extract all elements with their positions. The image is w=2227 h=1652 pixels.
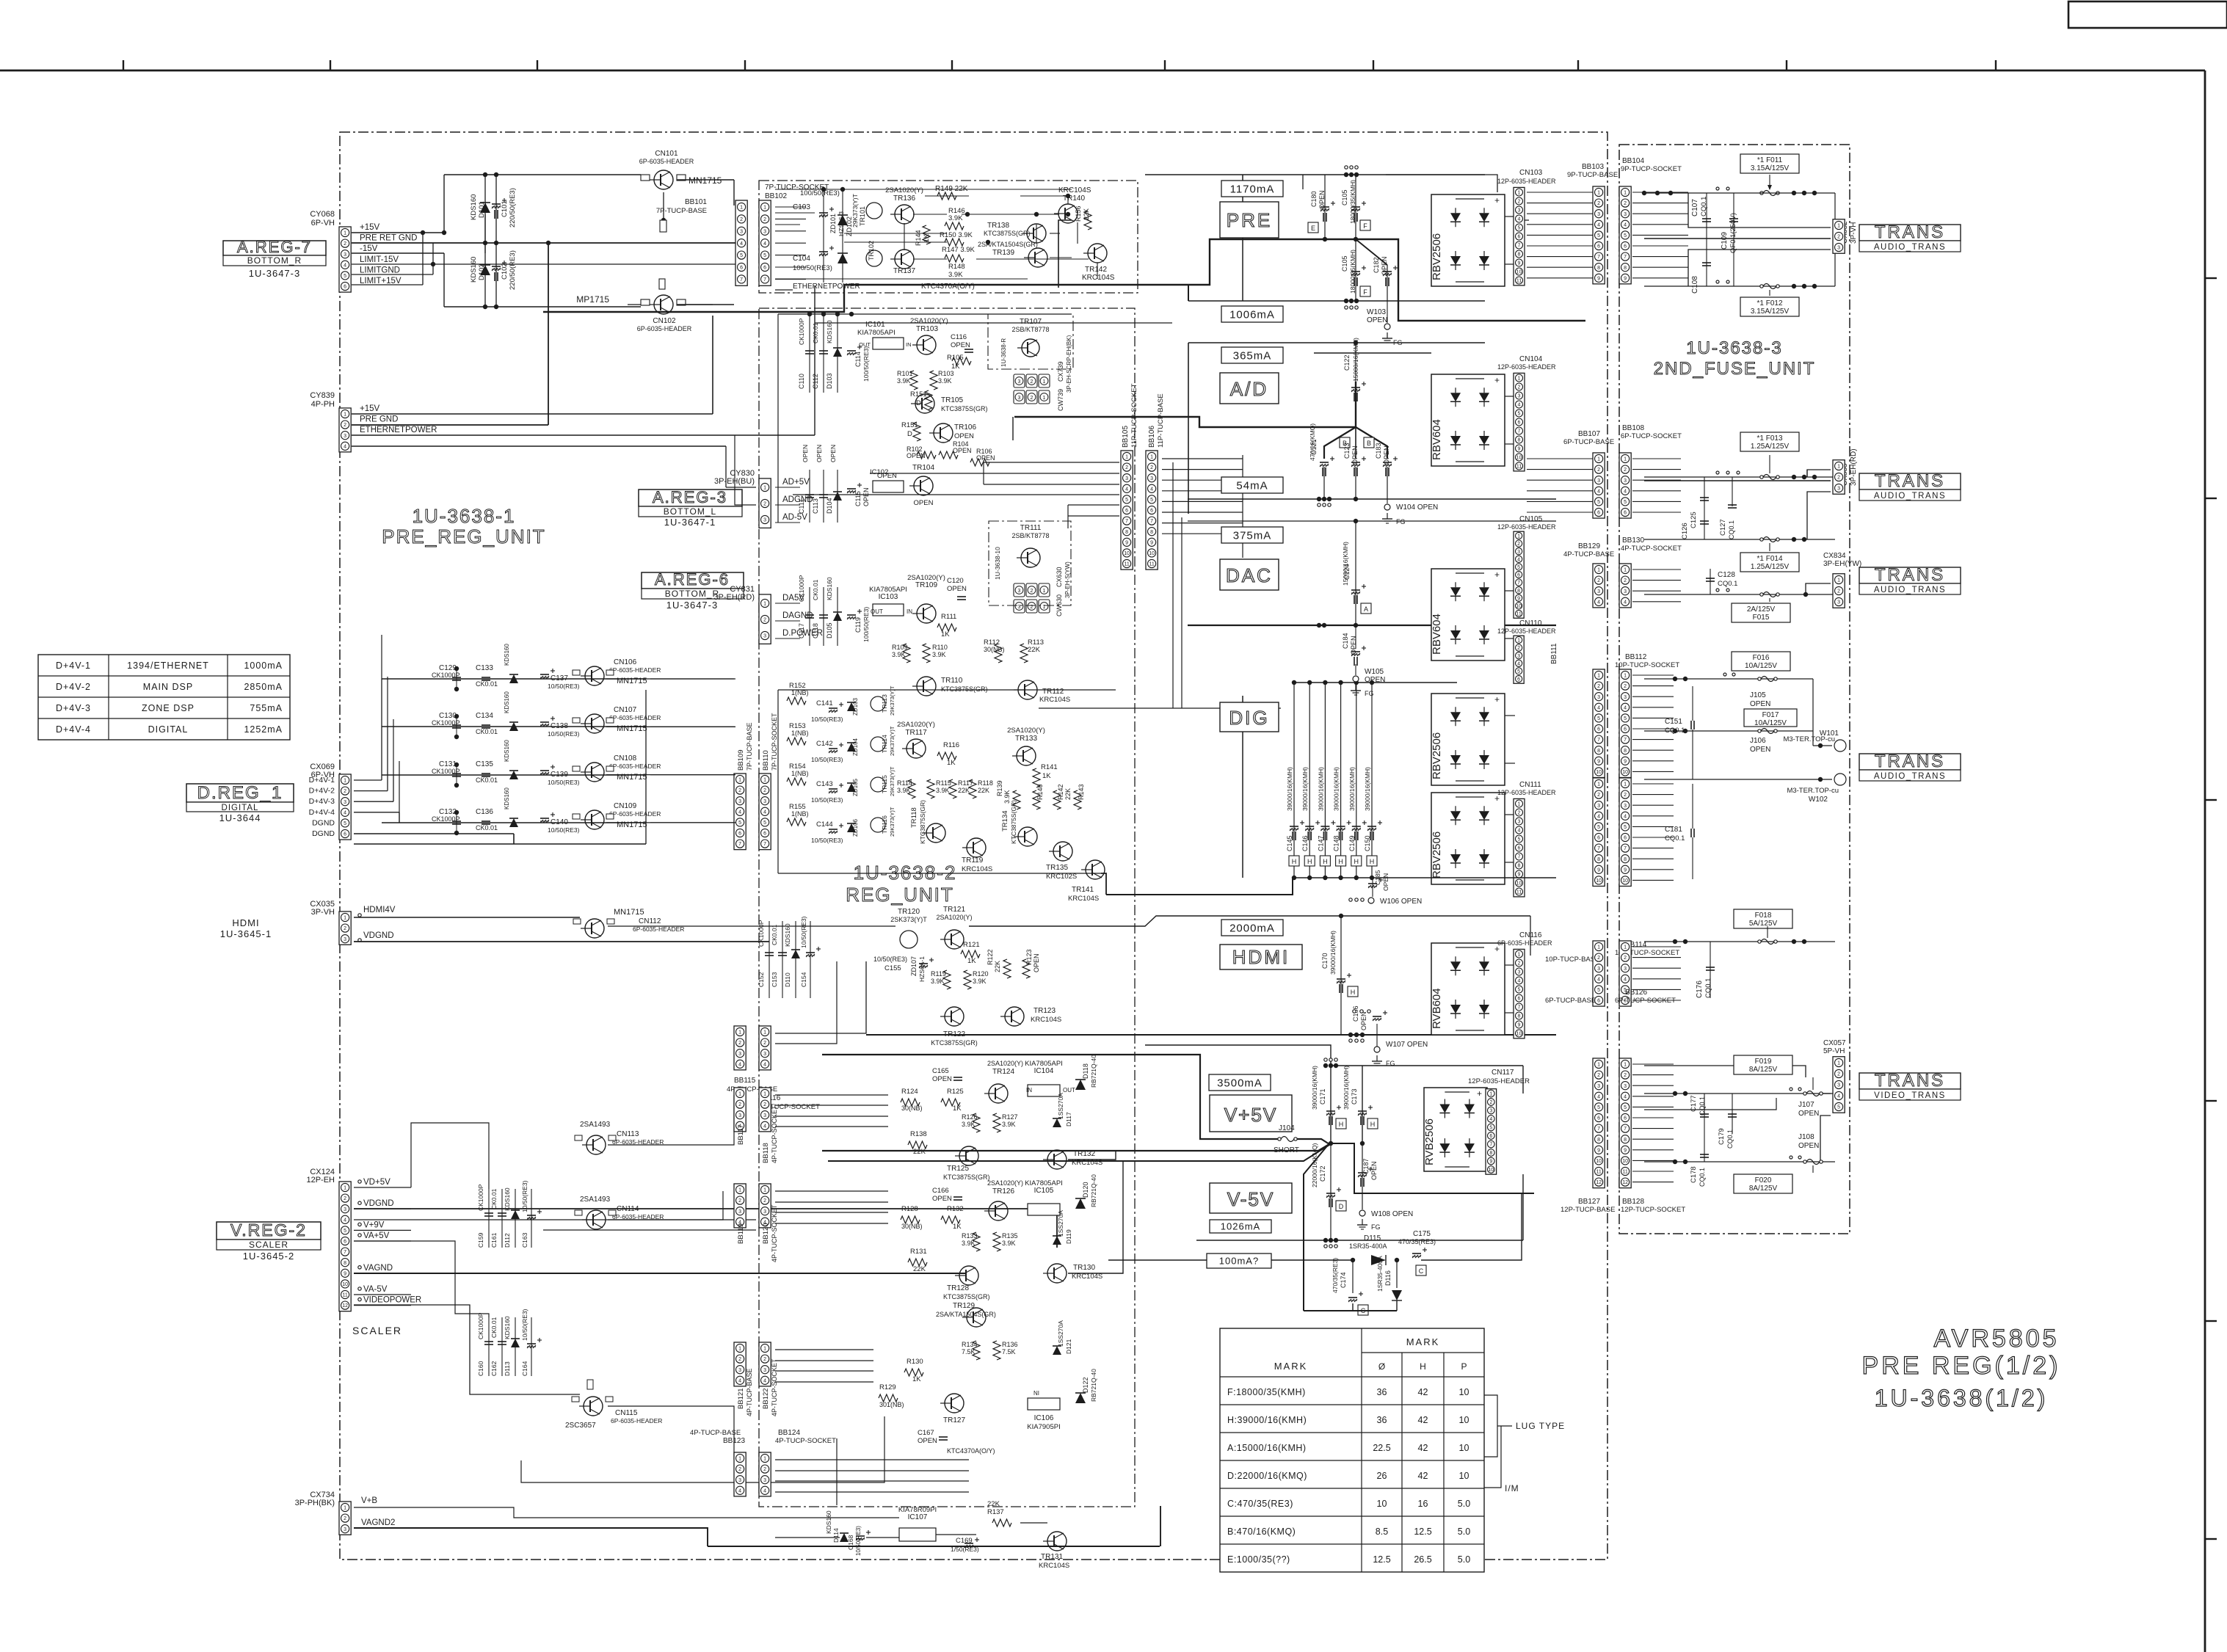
svg-text:C152: C152 [758,972,765,987]
svg-text:BB101: BB101 [685,198,707,206]
svg-text:CQ0.1: CQ0.1 [1726,1129,1734,1149]
svg-text:KRC104S: KRC104S [1068,895,1099,903]
svg-text:5: 5 [1624,233,1627,239]
svg-text:12.5: 12.5 [1373,1554,1390,1565]
svg-text:BB127: BB127 [1578,1198,1600,1206]
svg-text:D+4V-4: D+4V-4 [309,808,335,817]
svg-text:3: 3 [1517,550,1520,555]
svg-text:H: H [1292,858,1297,865]
label A/D [1220,373,1279,404]
svg-text:4: 4 [344,444,346,449]
svg-text:D+4V-3: D+4V-3 [309,797,335,806]
fuse label F014 [1740,553,1799,572]
svg-text:1U-3638(1/2): 1U-3638(1/2) [1875,1385,2049,1411]
svg-text:BB119: BB119 [737,1223,745,1244]
svg-text:VIDEOPOWER: VIDEOPOWER [363,1296,421,1305]
svg-text:7P-TUCP-SOCKET: 7P-TUCP-SOCKET [771,713,778,771]
svg-text:1: 1 [344,231,346,236]
connector pair BB123/BB124 4P [734,1452,746,1496]
svg-text:+15V: +15V [360,223,380,232]
svg-text:30(NB): 30(NB) [901,1223,923,1230]
connector pair BB107/BB108 6P [1593,453,1605,518]
W105 OPEN FG [1355,625,1356,649]
svg-text:TR117: TR117 [905,729,927,737]
svg-text:1: 1 [763,1188,766,1193]
bridge rectifier RVB2506 (V5V) [1424,1088,1487,1171]
svg-text:6P-TUCP-BASE: 6P-TUCP-BASE [1563,438,1614,446]
svg-text:C179: C179 [1718,1128,1726,1145]
svg-text:RB721Q-40: RB721Q-40 [1090,1369,1097,1402]
svg-text:1: 1 [763,1030,766,1036]
svg-text:AUDIO_TRANS: AUDIO_TRANS [1874,772,1946,781]
svg-text:R129: R129 [879,1383,896,1391]
svg-text:3: 3 [1837,600,1840,605]
svg-text:BB122: BB122 [762,1388,770,1409]
wire LIMITGND [352,274,433,275]
svg-text:7: 7 [740,277,743,283]
svg-text:MN1715: MN1715 [689,175,722,186]
svg-text:42: 42 [1418,1387,1428,1397]
svg-text:H:39000/16(KMH): H:39000/16(KMH) [1227,1415,1307,1425]
svg-text:1: 1 [1597,1063,1600,1068]
svg-text:1: 1 [738,1092,741,1097]
svg-text:KRC104S: KRC104S [1072,1273,1102,1281]
svg-text:TR116: TR116 [881,815,888,834]
svg-text:TRANS: TRANS [1875,1071,1945,1091]
svg-text:R122: R122 [987,949,994,965]
sheet top border line [0,70,2205,72]
svg-text:F017: F017 [1762,711,1779,719]
svg-text:1U-3638-R: 1U-3638-R [1000,338,1007,367]
svg-text:4: 4 [1489,1117,1492,1122]
svg-text:3: 3 [344,937,346,942]
svg-text:3: 3 [738,799,741,804]
wire ETHERNETPOWER [352,434,815,436]
svg-text:3: 3 [1837,1083,1840,1088]
scaler decoupling cap strings [488,1189,490,1248]
svg-text:KIA7805API: KIA7805API [869,586,907,594]
svg-text:22K: 22K [994,961,1001,972]
svg-text:KRC104S: KRC104S [962,865,992,873]
svg-text:P: P [1461,1361,1467,1372]
DIG regulator cluster [787,697,806,705]
svg-text:CK0.01: CK0.01 [490,1188,498,1209]
svg-text:C148: C148 [1333,835,1340,851]
svg-text:OPEN: OPEN [815,445,823,462]
svg-text:R105: R105 [947,354,964,362]
svg-text:BOTTOM_R: BOTTOM_R [665,589,719,599]
svg-text:4: 4 [1624,705,1627,710]
svg-text:C164: C164 [521,1361,528,1376]
svg-text:BB108: BB108 [1622,424,1644,432]
svg-text:6: 6 [1518,846,1521,851]
svg-text:11: 11 [1622,1170,1627,1175]
svg-text:HDMI: HDMI [1232,946,1290,968]
svg-text:10P-TUCP-SOCKET: 10P-TUCP-SOCKET [1615,661,1679,669]
svg-text:ZD105: ZD105 [852,778,859,796]
svg-text:D+4V-1: D+4V-1 [56,661,91,671]
svg-text:+: + [1494,570,1500,580]
svg-text:6: 6 [763,266,766,271]
svg-text:54mA: 54mA [1236,479,1268,492]
svg-text:OPEN: OPEN [1798,1142,1819,1150]
svg-text:TRANS: TRANS [1875,752,1945,771]
svg-text:2: 2 [1837,589,1840,594]
connector pair BB111/BB112 10P [1593,669,1605,778]
svg-text:2: 2 [738,1467,741,1472]
svg-text:C181: C181 [1665,826,1682,834]
svg-text:1: 1 [1837,465,1840,470]
svg-text:C145: C145 [1286,835,1293,851]
svg-text:C105: C105 [1341,255,1348,272]
svg-text:2: 2 [738,1198,741,1204]
svg-text:11: 11 [1516,465,1522,470]
svg-text:5: 5 [1150,498,1153,503]
svg-text:TR119: TR119 [962,856,984,865]
svg-text:E: E [1311,225,1315,232]
svg-text:AVR5805: AVR5805 [1933,1325,2059,1353]
svg-text:1: 1 [763,1092,766,1097]
svg-text:OPEN: OPEN [1365,676,1385,684]
svg-text:3.15A/125V: 3.15A/125V [1751,164,1790,172]
svg-text:3: 3 [1837,487,1840,492]
svg-text:2SA1020(Y): 2SA1020(Y) [987,1060,1023,1067]
svg-text:2: 2 [763,618,766,623]
svg-text:5: 5 [763,253,766,258]
svg-text:10/50(RE3): 10/50(RE3) [811,756,843,763]
svg-text:1U-3638-1: 1U-3638-1 [413,505,516,527]
svg-text:8: 8 [1624,857,1627,862]
svg-text:2: 2 [344,423,346,428]
svg-text:R139: R139 [996,780,1003,796]
svg-text:OPEN: OPEN [862,487,870,506]
svg-text:7: 7 [1624,255,1627,260]
label V+5V [1210,1095,1292,1132]
svg-text:KTC3875S(GR): KTC3875S(GR) [1010,800,1017,844]
svg-text:42: 42 [1418,1443,1428,1453]
svg-text:D+4V-2: D+4V-2 [56,682,91,692]
svg-text:F018: F018 [1755,911,1772,920]
svg-text:BB118: BB118 [762,1143,770,1163]
svg-text:OPEN: OPEN [1383,445,1390,465]
svg-text:7P-TUCP-BASE: 7P-TUCP-BASE [656,207,707,215]
svg-text:5: 5 [738,820,741,826]
svg-text:TR114: TR114 [881,735,888,753]
LUG TYPE bracket [1484,1395,1497,1457]
svg-text:10/50(RE3): 10/50(RE3) [873,956,907,963]
svg-text:5A/125V: 5A/125V [1749,920,1778,928]
svg-text:TR126: TR126 [992,1187,1014,1196]
wire +15V [352,232,444,233]
svg-text:CN104: CN104 [1519,355,1543,363]
svg-text:R138: R138 [910,1130,927,1138]
svg-text:4: 4 [1518,217,1521,222]
svg-text:7: 7 [1125,519,1128,524]
svg-text:4: 4 [738,1378,741,1383]
svg-text:9: 9 [1624,867,1627,873]
svg-text:FG: FG [1365,690,1374,697]
capacitor bank C145-C150 39000uF [1293,683,1295,878]
svg-text:+: + [1494,195,1500,205]
svg-text:C159: C159 [477,1232,484,1248]
svg-text:39000/16(KMH): 39000/16(KMH) [1343,1066,1350,1110]
svg-text:2: 2 [1597,467,1600,473]
svg-text:22K: 22K [1083,208,1090,220]
svg-text:5: 5 [1624,716,1627,721]
svg-text:R130: R130 [907,1358,923,1366]
svg-text:DAC: DAC [1226,564,1273,586]
svg-text:10/50(RE3): 10/50(RE3) [521,1180,528,1212]
svg-text:2: 2 [344,926,346,931]
svg-text:CX630: CX630 [1056,567,1063,587]
label DIG [1220,702,1279,732]
svg-text:7.5K: 7.5K [962,1348,976,1356]
svg-text:1: 1 [1518,376,1521,382]
svg-text:5: 5 [1518,837,1521,843]
svg-text:BB121: BB121 [737,1388,745,1409]
svg-text:2: 2 [738,1041,741,1046]
cap C128 CQ0.1 [1706,578,1715,579]
svg-text:D118: D118 [1082,1063,1089,1079]
svg-text:OPEN: OPEN [802,445,809,462]
svg-text:KTC3875S(GR): KTC3875S(GR) [943,1293,990,1300]
svg-text:KTC4370A(O/Y): KTC4370A(O/Y) [947,1447,995,1455]
svg-text:C173: C173 [1351,1088,1358,1105]
svg-text:LIMIT-15V: LIMIT-15V [360,255,399,264]
svg-text:22K: 22K [1028,646,1041,654]
svg-text:2: 2 [1597,578,1600,583]
PRE_REG_UNIT outer dash box [340,132,1607,1560]
svg-text:W108 OPEN: W108 OPEN [1371,1210,1413,1218]
svg-text:KRC104S: KRC104S [1031,1016,1061,1024]
svg-text:TRANS: TRANS [1875,471,1945,491]
D.REG regulator row CN109 [382,822,646,823]
svg-text:*1 F012: *1 F012 [1756,299,1782,308]
svg-text:CK0.01: CK0.01 [812,322,819,343]
svg-text:12P-EH: 12P-EH [306,1176,335,1185]
svg-text:CQ0.1: CQ0.1 [1718,580,1737,588]
svg-text:7: 7 [738,842,741,847]
svg-text:BB105: BB105 [1122,426,1130,448]
svg-text:1006mA: 1006mA [1229,308,1275,321]
svg-text:3: 3 [1597,695,1600,700]
svg-text:4: 4 [1597,977,1600,982]
svg-text:D120: D120 [1082,1182,1089,1198]
svg-text:KIA78R09PI: KIA78R09PI [898,1506,937,1514]
svg-text:2: 2 [1518,385,1521,390]
svg-text:10/50(RE3): 10/50(RE3) [811,796,843,804]
svg-text:C151: C151 [1665,718,1682,726]
svg-text:3P-VH: 3P-VH [311,908,335,917]
svg-text:SCALER: SCALER [352,1325,402,1336]
svg-text:3P-EH(RD): 3P-EH(RD) [713,593,755,602]
svg-text:2: 2 [1597,956,1600,961]
svg-text:C111: C111 [798,499,805,514]
svg-text:3.9K: 3.9K [897,787,911,794]
svg-text:TR132: TR132 [1073,1150,1095,1158]
svg-text:16: 16 [1418,1499,1428,1509]
svg-text:22K: 22K [987,1500,1000,1508]
svg-text:9: 9 [1624,1148,1627,1153]
svg-text:CN113: CN113 [617,1130,639,1138]
svg-text:IC102: IC102 [870,468,888,476]
svg-text:C125: C125 [1690,512,1698,528]
svg-text:R116: R116 [943,741,959,749]
svg-text:1U-3638-3: 1U-3638-3 [1686,338,1782,358]
svg-text:11: 11 [1516,612,1521,617]
svg-text:6: 6 [1597,511,1600,516]
svg-text:3500mA: 3500mA [1217,1077,1263,1089]
svg-text:6: 6 [1624,727,1627,732]
svg-text:26.5: 26.5 [1414,1554,1431,1565]
svg-text:CK1000P: CK1000P [798,575,805,602]
svg-text:4: 4 [740,241,743,247]
svg-text:OPEN: OPEN [914,499,934,507]
svg-text:W105: W105 [1365,668,1384,676]
svg-text:1U-3638-10: 1U-3638-10 [994,547,1001,580]
svg-text:+: + [1494,375,1500,385]
svg-text:OPEN: OPEN [1033,953,1040,972]
svg-text:1: 1 [1624,782,1627,787]
svg-text:C134: C134 [476,712,493,720]
svg-text:6P-TUCP-BASE: 6P-TUCP-BASE [1545,997,1596,1005]
svg-text:36: 36 [1377,1387,1387,1397]
label 365mA [1221,347,1283,363]
svg-text:5: 5 [1837,1105,1840,1110]
C172 branch [1330,1143,1332,1240]
svg-text:C165: C165 [932,1067,949,1075]
fuse label F016 [1732,652,1790,671]
svg-text:1SS270A: 1SS270A [1057,1210,1064,1237]
connector pair BB127/BB128 12P [1593,1058,1605,1188]
fuse wire row F014 [1644,539,1835,540]
svg-text:1/50(RE3): 1/50(RE3) [951,1546,979,1553]
svg-text:OPEN: OPEN [1360,1011,1367,1030]
svg-text:4: 4 [1624,489,1627,494]
svg-text:TR101: TR101 [859,206,866,226]
svg-text:22K: 22K [913,1148,926,1156]
svg-text:2: 2 [763,1357,766,1362]
svg-text:AD+5V: AD+5V [782,478,810,487]
svg-text:TR133: TR133 [1015,735,1037,743]
svg-text:1: 1 [1597,457,1600,462]
svg-text:R136: R136 [1002,1341,1018,1348]
svg-text:IN: IN [907,608,912,615]
fuse wire row F013 [1644,476,1835,478]
svg-text:3: 3 [1624,967,1627,972]
svg-text:10/50(RE3): 10/50(RE3) [811,716,843,723]
svg-text:C133: C133 [476,664,493,672]
svg-text:D122: D122 [1082,1377,1089,1393]
svg-text:QF0.1(250V): QF0.1(250V) [1729,213,1737,253]
svg-text:D102: D102 [478,263,486,280]
svg-text:OPEN: OPEN [918,1437,937,1445]
svg-text:3: 3 [344,252,346,258]
svg-text:CX834: CX834 [1823,552,1846,560]
svg-text:3.9K: 3.9K [962,1121,976,1128]
connector pair BB103/BB104 9P [1593,186,1605,284]
svg-text:4: 4 [763,1062,766,1067]
svg-text:10/50(RE3): 10/50(RE3) [521,1309,528,1341]
label 1170mA [1221,181,1283,197]
svg-text:4: 4 [1624,977,1627,982]
svg-text:I/M: I/M [1505,1483,1519,1493]
svg-text:1.25A/125V: 1.25A/125V [1751,443,1790,451]
svg-text:3: 3 [1518,820,1521,825]
svg-text:10: 10 [1377,1499,1387,1509]
label 1006mA [1221,306,1283,322]
svg-text:18000/35(KMH): 18000/35(KMH) [1349,180,1356,224]
svg-text:8: 8 [1518,252,1521,258]
svg-text:DIGITAL: DIGITAL [148,724,189,735]
svg-text:2: 2 [344,1196,346,1201]
svg-text:A.REG-3: A.REG-3 [653,488,727,506]
svg-text:C135: C135 [476,760,493,768]
svg-text:1: 1 [1837,1061,1840,1066]
svg-text:5: 5 [1624,1105,1627,1110]
cap C109 QF0.1(250V) [1729,218,1738,219]
svg-text:1: 1 [1624,1063,1627,1068]
svg-text:C177: C177 [1690,1095,1698,1112]
table MARK capacitor types [1220,1328,1484,1572]
cap C176 CQ0.1 [1706,967,1715,968]
fuse label F013 [1740,432,1799,451]
svg-text:12.5: 12.5 [1414,1527,1431,1537]
svg-text:39000/16(KMH): 39000/16(KMH) [1286,767,1293,811]
svg-text:2SB/KT8778: 2SB/KT8778 [1011,532,1049,539]
svg-text:2SB/KT8778: 2SB/KT8778 [1011,326,1049,333]
svg-text:*1 F014: *1 F014 [1756,555,1782,563]
svg-text:MN1715: MN1715 [617,677,647,685]
svg-text:10: 10 [1516,1032,1522,1037]
label box V.REG-2 [217,1222,321,1240]
svg-text:7: 7 [763,842,766,847]
svg-text:TR111: TR111 [1020,524,1042,532]
svg-text:3: 3 [763,229,766,234]
svg-text:375mA: 375mA [1233,529,1272,542]
svg-text:4: 4 [763,809,766,815]
svg-text:2850mA: 2850mA [244,682,283,692]
fuse label F015 [1732,603,1790,622]
svg-text:4: 4 [344,1218,346,1223]
svg-text:R125: R125 [947,1088,964,1096]
svg-text:R115: R115 [936,779,951,787]
svg-text:2: 2 [1031,589,1033,594]
svg-text:4: 4 [1597,705,1600,710]
svg-text:D104: D104 [826,498,833,514]
svg-text:TR103: TR103 [916,325,938,333]
svg-text:1(NB): 1(NB) [791,810,809,818]
svg-text:IC101: IC101 [865,321,885,329]
svg-text:4: 4 [763,1124,766,1129]
svg-text:2: 2 [344,1516,346,1521]
svg-text:C170: C170 [1321,953,1329,969]
wire top rail y238 [444,174,641,175]
svg-text:2SA1020(Y): 2SA1020(Y) [897,721,935,729]
svg-text:D: D [1339,1203,1344,1210]
svg-text:VIDEO_TRANS: VIDEO_TRANS [1874,1091,1946,1100]
svg-text:470/35(RE3): 470/35(RE3) [1398,1238,1436,1245]
svg-text:OPEN: OPEN [1798,1110,1819,1118]
svg-text:TR127: TR127 [943,1416,965,1424]
label box A.REG-7 [223,241,326,255]
svg-text:5: 5 [1518,412,1521,417]
svg-text:3: 3 [1597,589,1600,594]
svg-text:C115: C115 [854,491,862,506]
svg-text:9: 9 [1125,540,1128,545]
fuse symbol F011 [1760,192,1763,194]
svg-text:11: 11 [1124,562,1129,567]
